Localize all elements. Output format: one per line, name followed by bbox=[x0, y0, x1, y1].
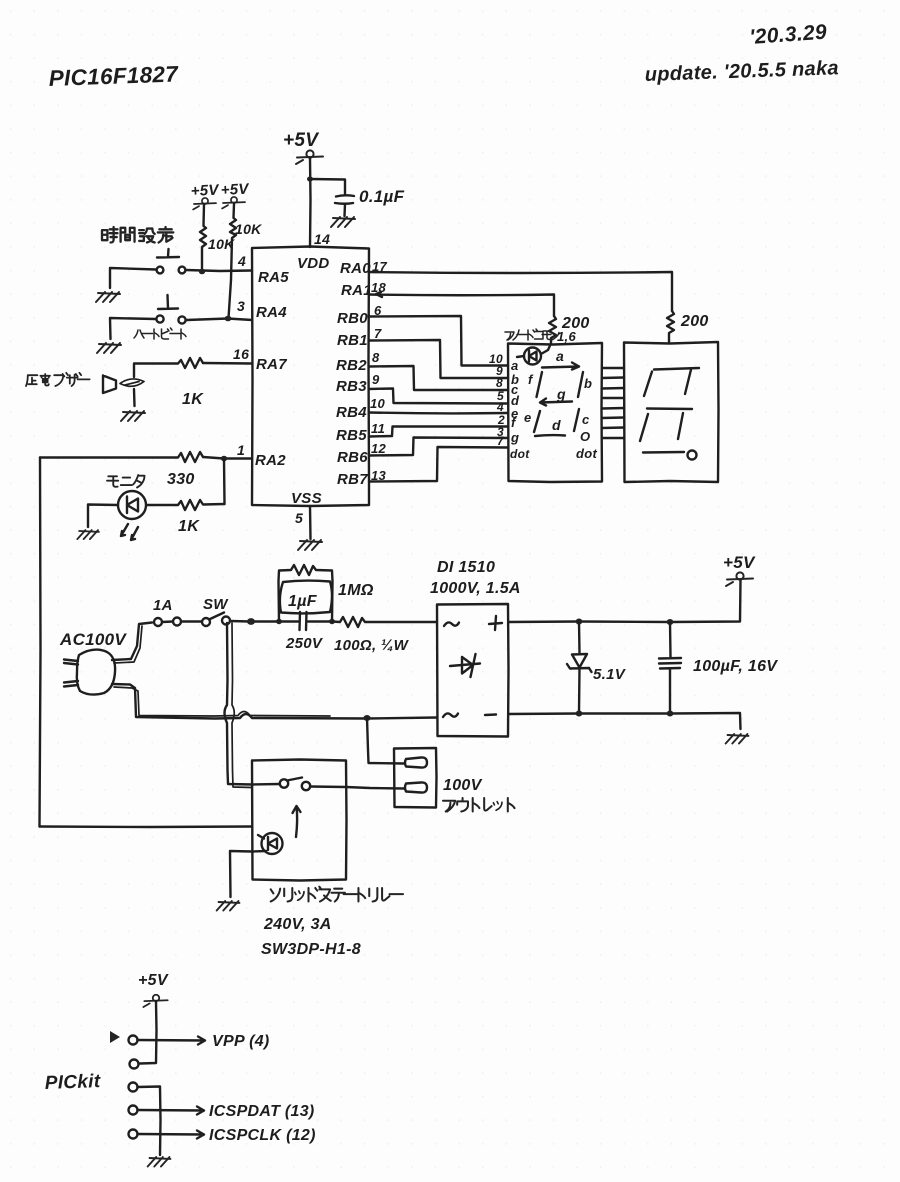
wire contact left lead bbox=[252, 783, 280, 786]
wire LED to ground bbox=[88, 505, 118, 528]
bridge diode symbol bbox=[450, 654, 480, 677]
junction hot node bbox=[247, 618, 255, 625]
svg-text:9: 9 bbox=[372, 372, 380, 387]
wire ICSPCLK arrow bbox=[138, 1131, 205, 1139]
wire SSR LED cathode to ground bbox=[230, 851, 266, 897]
resistor R 1K buzzer bbox=[134, 358, 203, 377]
resistor R 10K left bbox=[200, 204, 206, 272]
label アノードコモン anode common bbox=[505, 329, 559, 340]
wire RA7 pin16 bbox=[203, 362, 252, 365]
bridge rectifier DB1 body bbox=[437, 604, 509, 737]
DS2 seg top-right stroke bbox=[685, 370, 691, 395]
svg-text:VSS: VSS bbox=[291, 490, 322, 507]
switch SW2 heartbeat contacts bbox=[156, 295, 185, 324]
svg-text:1000V, 1.5A: 1000V, 1.5A bbox=[430, 580, 521, 597]
junction cap top bbox=[667, 619, 674, 625]
ground SW1 bbox=[96, 292, 120, 302]
svg-text:RB2: RB2 bbox=[336, 357, 367, 374]
svg-text:RA7: RA7 bbox=[256, 356, 287, 373]
ground SW2 bbox=[97, 343, 121, 353]
svg-text:+5V: +5V bbox=[723, 553, 756, 572]
svg-text:RB3: RB3 bbox=[336, 378, 367, 395]
wire RA2 pin1 long bbox=[203, 457, 252, 459]
power +5V symbol right pullup bbox=[222, 197, 245, 209]
svg-text:+5V: +5V bbox=[190, 181, 221, 200]
junction X-cap left bbox=[276, 619, 282, 624]
AC plug body bbox=[77, 650, 115, 695]
seg d stroke and label bbox=[535, 417, 565, 436]
LED light arrows bbox=[121, 524, 138, 540]
SSR contact circles bbox=[280, 778, 310, 791]
svg-text:RA1: RA1 bbox=[341, 282, 372, 299]
svg-text:d: d bbox=[552, 417, 561, 433]
SSR LED bbox=[258, 833, 283, 854]
wire to bypass cap bbox=[310, 179, 345, 195]
label アウトレット outlet bbox=[443, 798, 515, 812]
wire RA0 pin17 to display2 resistor bbox=[369, 272, 672, 311]
svg-text:8: 8 bbox=[496, 376, 503, 390]
svg-text:RB4: RB4 bbox=[336, 404, 367, 421]
pickit pin1 triangle marker bbox=[110, 1031, 120, 1043]
ground output rail bbox=[726, 734, 749, 744]
label 圧電ブザー piezo buzzer bbox=[26, 373, 90, 386]
svg-text:200: 200 bbox=[680, 313, 709, 330]
pickit pin1 circle bbox=[129, 1036, 138, 1045]
seg f stroke and label bbox=[528, 372, 542, 397]
LED symbol inside DS1 bbox=[517, 346, 550, 365]
svg-text:VPP (4): VPP (4) bbox=[212, 1033, 270, 1050]
ground VSS bbox=[298, 540, 322, 550]
display DS2 7seg body bbox=[624, 342, 719, 482]
ground below 0.1uF bbox=[331, 217, 355, 227]
svg-text:1µF: 1µF bbox=[288, 593, 318, 610]
svg-text:0.1µF: 0.1µF bbox=[359, 187, 405, 206]
wire SW1 to ground bbox=[110, 268, 156, 288]
wire SW2 to ground bbox=[110, 318, 156, 339]
DS2 seg bottom bar bbox=[643, 451, 684, 454]
wire fuse to switch bbox=[181, 620, 201, 622]
pickit pin3 circle bbox=[129, 1083, 138, 1092]
bridge plus mark bbox=[489, 616, 502, 630]
junction zener top bbox=[576, 619, 583, 625]
wire RB7 pin13 to seg dot bbox=[369, 447, 508, 482]
svg-text:12: 12 bbox=[371, 441, 387, 456]
svg-text:330: 330 bbox=[167, 471, 195, 488]
svg-text:100µF, 16V: 100µF, 16V bbox=[693, 658, 778, 675]
wire pin3 to ground bbox=[138, 1087, 161, 1156]
label モニタ monitor bbox=[107, 475, 145, 488]
svg-text:4: 4 bbox=[237, 253, 246, 269]
svg-text:c: c bbox=[582, 412, 590, 427]
svg-text:SW: SW bbox=[203, 596, 229, 613]
zener D2 5.1V bbox=[567, 622, 592, 714]
outlet box bbox=[394, 748, 437, 808]
AC plug prong top bbox=[64, 660, 78, 665]
svg-text:e: e bbox=[524, 410, 532, 425]
svg-text:b: b bbox=[584, 376, 592, 391]
resistor R 1K LED bbox=[147, 500, 225, 510]
svg-text:240V, 3A: 240V, 3A bbox=[263, 916, 332, 933]
DS2 seg top bar bbox=[654, 368, 699, 370]
label ソリッドステートリレー solid state relay bbox=[271, 887, 403, 902]
svg-text:DI 1510: DI 1510 bbox=[437, 559, 495, 576]
wire RB0 pin6 to seg a bbox=[369, 316, 508, 366]
bridge AC mark bottom bbox=[443, 713, 458, 717]
wire neutral plug to bridge (doubled) bbox=[112, 684, 437, 719]
svg-text:8: 8 bbox=[372, 350, 380, 365]
svg-text:RB0: RB0 bbox=[337, 310, 368, 327]
capacitor CX 1uF plates bbox=[278, 612, 332, 630]
svg-text:10K: 10K bbox=[235, 221, 262, 237]
svg-text:11: 11 bbox=[371, 421, 385, 436]
svg-text:100Ω, ¼W: 100Ω, ¼W bbox=[334, 637, 410, 654]
buzzer piezo disc bbox=[120, 379, 144, 386]
wire branch down to LED resistor bbox=[223, 459, 226, 505]
svg-text:RA0: RA0 bbox=[340, 260, 371, 277]
svg-text:SW3DP-H1-8: SW3DP-H1-8 bbox=[261, 941, 361, 958]
svg-text:PICkit: PICkit bbox=[44, 1071, 101, 1094]
pickit pin5 circle bbox=[129, 1130, 138, 1139]
wire RB5 pin11 to seg f bbox=[369, 427, 508, 437]
svg-text:dot: dot bbox=[576, 446, 597, 461]
svg-text:1: 1 bbox=[237, 442, 245, 458]
svg-text:7: 7 bbox=[497, 434, 505, 448]
svg-text:+5V: +5V bbox=[220, 180, 251, 199]
svg-text:1A: 1A bbox=[153, 597, 173, 614]
junction VDD node bbox=[307, 176, 313, 181]
wire RB2 pin8 to seg c bbox=[369, 366, 508, 390]
svg-text:AC100V: AC100V bbox=[59, 630, 127, 649]
svg-text:ICSPCLK (12): ICSPCLK (12) bbox=[209, 1127, 316, 1144]
svg-text:ICSPDAT (13): ICSPDAT (13) bbox=[209, 1103, 315, 1120]
svg-text:3: 3 bbox=[237, 298, 245, 314]
buzzer BZ speaker symbol bbox=[103, 376, 116, 394]
svg-text:+5V: +5V bbox=[283, 130, 319, 151]
capacitor C 0.1uF bbox=[335, 195, 354, 216]
junction zener bottom bbox=[576, 711, 583, 717]
resistor R 100ohm bbox=[332, 617, 437, 627]
junction RA4 pullup node bbox=[225, 316, 232, 322]
junction neutral outlet node bbox=[363, 715, 370, 721]
seg b stroke and label bbox=[578, 372, 592, 397]
resistor R 200 display2 bbox=[667, 311, 674, 342]
wire buzzer to ground bbox=[133, 389, 136, 406]
wire switch to X-cap node bbox=[230, 620, 278, 623]
SSR box body bbox=[252, 760, 347, 881]
svg-text:5: 5 bbox=[295, 510, 303, 526]
svg-text:1MΩ: 1MΩ bbox=[338, 582, 374, 599]
wire RA4 pin3 bbox=[187, 319, 253, 321]
SSR internal arrow bbox=[293, 806, 301, 837]
display DS1 7seg body bbox=[508, 343, 602, 482]
wire outlet top prong to neutral bbox=[367, 718, 404, 764]
resistor R 10K right bbox=[229, 204, 237, 318]
DS2 seg bottom-right stroke bbox=[678, 413, 683, 439]
svg-text:O: O bbox=[580, 429, 590, 444]
svg-text:a: a bbox=[511, 358, 519, 373]
svg-text:1K: 1K bbox=[178, 518, 200, 535]
svg-text:RB5: RB5 bbox=[336, 427, 367, 444]
pickit pin2 circle bbox=[130, 1060, 139, 1069]
wire VDD pin14 bbox=[309, 158, 312, 247]
ground buzzer bbox=[121, 411, 145, 421]
wire RB6 pin12 to seg g bbox=[369, 438, 508, 456]
wire +5V to pin2 bbox=[140, 1002, 157, 1064]
wire RB3 pin9 to seg d bbox=[369, 389, 508, 404]
wire contact right to outlet bbox=[310, 787, 404, 789]
label 時間設定 time-set bbox=[102, 227, 173, 243]
svg-text:14: 14 bbox=[314, 231, 330, 247]
svg-text:4: 4 bbox=[496, 400, 504, 414]
switch SW power bbox=[202, 613, 230, 627]
junction RA5 pullup node bbox=[199, 269, 205, 275]
X-cap box 1uF bbox=[280, 581, 332, 614]
ground SSR LED bbox=[217, 901, 240, 911]
svg-text:g: g bbox=[510, 430, 519, 445]
bridge minus mark bbox=[485, 713, 496, 716]
svg-text:10: 10 bbox=[370, 396, 386, 411]
svg-text:RA4: RA4 bbox=[256, 304, 287, 321]
power +5V symbol above VDD bbox=[296, 150, 323, 164]
bridge AC mark top bbox=[444, 622, 459, 626]
svg-text:250V: 250V bbox=[285, 635, 324, 652]
outlet prong bottom bbox=[405, 782, 427, 792]
power +5V symbol left pullup bbox=[193, 198, 216, 210]
ground LED monitor bbox=[77, 530, 99, 539]
op IC U1 PIC16F1827 body bbox=[252, 247, 369, 507]
svg-text:PIC16F1827: PIC16F1827 bbox=[48, 61, 179, 91]
svg-text:1,6: 1,6 bbox=[557, 329, 576, 344]
wire bridge minus rail bbox=[509, 713, 741, 729]
pickit pin4 circle bbox=[129, 1106, 138, 1115]
wire RA5 pin4 bbox=[186, 270, 252, 271]
junction X-cap right bbox=[329, 619, 335, 624]
outlet prong top bbox=[405, 757, 427, 767]
resistor R 1M bleeder bbox=[279, 565, 333, 622]
svg-text:5.1V: 5.1V bbox=[593, 666, 627, 683]
svg-text:g: g bbox=[556, 386, 566, 402]
power +5V symbol output bbox=[726, 572, 753, 586]
DS2 seg top-left stroke bbox=[644, 372, 652, 397]
wire RB1 pin7 to seg b bbox=[369, 340, 508, 378]
svg-text:a: a bbox=[556, 348, 564, 364]
arrow tick RA1 bbox=[376, 292, 382, 297]
seg g label and arrow bbox=[540, 386, 572, 406]
DS2 dot circle bbox=[688, 451, 697, 460]
seg e stroke and label bbox=[524, 410, 540, 432]
wire bridge plus output bbox=[509, 580, 741, 622]
wire VSS pin5 bbox=[309, 506, 312, 539]
fuse F1 1A bbox=[154, 618, 181, 627]
svg-text:RB6: RB6 bbox=[337, 449, 368, 466]
resistor R 200 display1 bbox=[549, 316, 556, 343]
wire hot plug to fuse (doubled) bbox=[112, 623, 152, 661]
seg c stroke and label bbox=[574, 409, 590, 431]
svg-text:+5V: +5V bbox=[138, 972, 169, 989]
svg-text:dot: dot bbox=[510, 447, 530, 461]
label ハートビート heartbeat bbox=[134, 328, 186, 339]
junction RA2 branch bbox=[221, 456, 227, 462]
wire RA2 riser to SSR LED bbox=[40, 825, 253, 828]
DS2 seg bottom-left stroke bbox=[640, 414, 648, 441]
power +5V symbol pickit bbox=[143, 995, 167, 1007]
capacitor C2 100uF 16V bbox=[659, 622, 681, 713]
svg-text:RB7: RB7 bbox=[337, 471, 368, 488]
wire ICSPDAT arrow bbox=[138, 1107, 205, 1115]
LED D1 monitor bbox=[118, 491, 146, 519]
svg-text:RB1: RB1 bbox=[337, 332, 368, 349]
wire switched hot down to SSR (doubled with hop) bbox=[225, 623, 253, 785]
wire left riser to SSR bbox=[40, 458, 41, 827]
ground pickit bbox=[148, 1157, 171, 1167]
DS2 seg middle bar bbox=[647, 407, 692, 410]
wire RB4 pin10 to seg e bbox=[369, 411, 508, 414]
junction cap bottom bbox=[667, 711, 674, 717]
wire RA1 pin18 to display1 resistor bbox=[369, 295, 554, 317]
seg a arrow bbox=[542, 363, 579, 370]
svg-text:RA5: RA5 bbox=[258, 269, 289, 286]
svg-text:100V: 100V bbox=[443, 777, 483, 794]
svg-text:1K: 1K bbox=[182, 391, 204, 408]
wire VPP arrow bbox=[138, 1037, 206, 1045]
switch SW1 time-set contacts bbox=[157, 249, 186, 273]
svg-text:16: 16 bbox=[233, 346, 249, 362]
svg-text:7: 7 bbox=[374, 326, 382, 341]
svg-text:VDD: VDD bbox=[297, 255, 330, 272]
svg-text:RA2: RA2 bbox=[255, 452, 286, 469]
resistor R 330 bbox=[40, 452, 203, 462]
AC plug prong bottom bbox=[64, 681, 78, 687]
wires DS1 to DS2 bus bbox=[602, 368, 624, 438]
